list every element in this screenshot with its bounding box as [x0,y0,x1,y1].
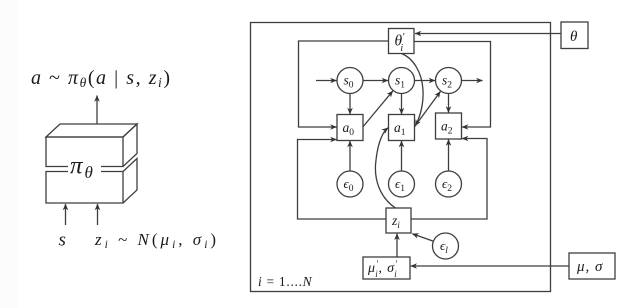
wire: s_2 -> a_2 [448,94,450,113]
mu,sigma box (outside plate) [569,253,615,279]
node s_2 [436,68,462,94]
node s_0 [337,68,363,94]
wire: theta' curve to a_1 [402,54,424,127]
node eps_1 [389,171,415,197]
svg-text:a2: a2 [441,119,453,137]
wire: mu,sigma -> mu'sigma' [411,265,569,267]
svg-text:zi: zi [391,213,400,231]
node eps_0 [337,171,363,197]
node a_1 [389,115,415,141]
wire: theta -> theta'_i [415,33,561,35]
svg-text:ϵ1: ϵ1 [395,176,405,194]
node eps_l [433,233,459,259]
svg-text:s2: s2 [442,73,452,91]
wire: z_i loop right to a_2 [411,139,487,220]
svg-text:s1: s1 [395,73,405,91]
wire: a_0 -> s_1 [363,91,393,127]
svg-text:a0: a0 [343,120,355,138]
wire: theta' loop left to a_0 [299,41,389,127]
svg-text:θ′i: θ′i [395,32,406,54]
wire: s_1 -> a_1 [401,94,403,115]
wire: theta' loop right to a_2 [414,42,491,128]
label pi_theta [68,152,101,182]
wire: s_2 -> out [462,80,483,82]
svg-text:μ′i, σ′i: μ′i, σ′i [367,260,398,279]
wire: s_0 -> a_0 [349,94,351,115]
svg-text:ϵ0: ϵ0 [344,176,354,194]
wire: arrow z_i into box bottom [97,204,99,225]
node mu'_i, sigma'_i box [363,257,410,279]
svg-text:μ, σ: μ, σ [576,259,603,275]
svg-text:s: s [59,230,66,251]
pi_theta cuboid lower half [46,159,137,204]
label s (input) [59,230,66,251]
node a_2 [436,113,462,139]
svg-text:ϵ2: ϵ2 [442,176,452,194]
wire: eps_1 -> a_1 [401,141,403,171]
plate label i = 1....N [258,274,313,289]
wire: a_1 -> s_2 [415,92,441,127]
wire: z_i curve to a_1 [375,128,395,208]
wire: eps_l -> z_i [412,234,433,241]
wire: eps_2 -> a_2 [448,140,450,171]
svg-text:θ: θ [570,29,578,45]
wire: arrow s into box bottom [65,204,67,225]
wire: s_0 -> s_1 [363,80,388,82]
wire: initial arrow into s_0 [316,80,337,82]
formula a ~ pi_theta(a | s, z_i) [31,67,172,90]
node a_0 [337,115,363,141]
pi_theta cuboid upper half [46,124,137,167]
node z_i [386,208,411,233]
theta'_i box [389,29,415,55]
node eps_2 [436,171,462,197]
wire: mu'sigma' -> z_i [396,234,398,257]
wire: eps_0 -> a_0 [349,141,351,171]
svg-text:s0: s0 [344,73,354,91]
theta box (outside plate) [561,22,588,49]
svg-text:zi ~ N(μi, σi): zi ~ N(μi, σi) [94,230,219,251]
svg-text:ϵl: ϵl [440,238,448,256]
node s_1 [389,68,415,94]
svg-text:a1: a1 [394,120,406,138]
plate rectangle [251,23,551,292]
wire: arrow from pi box top to formula [96,96,98,125]
page background tint strip [0,0,18,308]
svg-text:i = 1....N: i = 1....N [258,274,313,289]
wire: s_1 -> s_2 [415,80,436,82]
wire: z_i loop left to a_0 [298,140,387,220]
svg-text:a ~ πθ(a | s, zi): a ~ πθ(a | s, zi) [31,67,172,90]
label z_i ~ N(mu_i, sigma_i) [94,230,219,251]
